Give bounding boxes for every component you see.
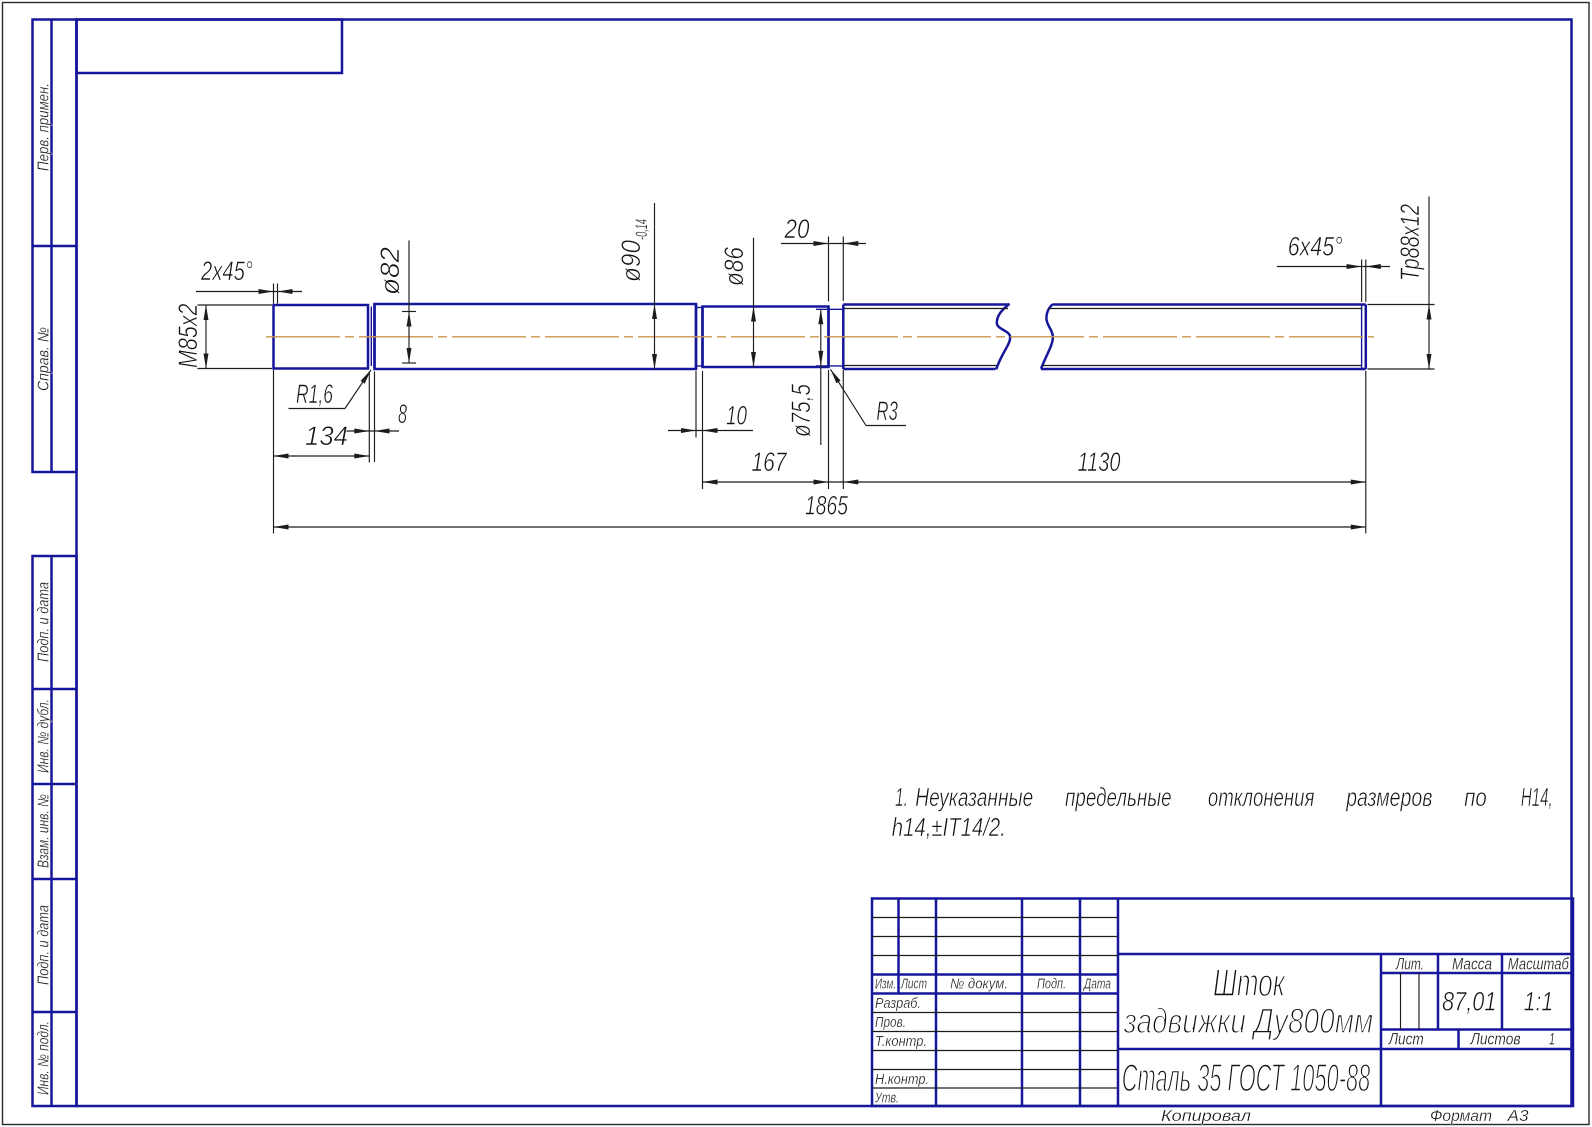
- svg-text:Лит.: Лит.: [1395, 955, 1424, 974]
- svg-text:задвижки Ду800мм: задвижки Ду800мм: [1123, 1002, 1373, 1041]
- svg-text:Лист: Лист: [1388, 1030, 1424, 1049]
- svg-text:2х45°: 2х45°: [200, 256, 253, 286]
- svg-text:Инв. № дубл.: Инв. № дубл.: [36, 699, 53, 773]
- svg-text:1130: 1130: [1078, 447, 1121, 477]
- svg-text:Масса: Масса: [1452, 955, 1492, 974]
- svg-text:Утв.: Утв.: [874, 1091, 899, 1107]
- svg-text:h14,±IT14/2.: h14,±IT14/2.: [892, 812, 1006, 842]
- svg-text:1: 1: [1549, 1030, 1555, 1049]
- svg-text:R3: R3: [876, 396, 898, 426]
- svg-text:ø86: ø86: [719, 246, 749, 286]
- svg-text:№ докум.: № докум.: [950, 977, 1008, 993]
- svg-text:Взам. инв. №: Взам. инв. №: [36, 794, 53, 868]
- svg-text:Т.контр.: Т.контр.: [875, 1034, 927, 1050]
- svg-text:ø90-0,14: ø90-0,14: [616, 219, 651, 282]
- svg-text:167: 167: [752, 447, 788, 477]
- svg-text:134: 134: [305, 421, 348, 451]
- svg-text:Изм.: Изм.: [875, 977, 896, 993]
- svg-text:6х45°: 6х45°: [1288, 232, 1343, 262]
- svg-text:Н14,: Н14,: [1521, 782, 1553, 812]
- svg-text:1865: 1865: [805, 491, 849, 521]
- svg-text:1:1: 1:1: [1524, 987, 1553, 1017]
- svg-text:отклонения: отклонения: [1208, 782, 1315, 812]
- svg-text:Подп. и дата: Подп. и дата: [36, 905, 53, 985]
- svg-text:Справ. №: Справ. №: [36, 327, 53, 391]
- svg-text:Копировал: Копировал: [1161, 1108, 1251, 1125]
- svg-text:Лист: Лист: [900, 977, 927, 993]
- svg-text:предельные: предельные: [1065, 782, 1172, 812]
- svg-text:Формат: Формат: [1430, 1108, 1492, 1125]
- svg-text:размеров: размеров: [1345, 782, 1432, 812]
- svg-text:87,01: 87,01: [1442, 987, 1497, 1017]
- svg-text:Дата: Дата: [1083, 977, 1111, 993]
- svg-text:Сталь 35 ГОСТ 1050-88: Сталь 35 ГОСТ 1050-88: [1122, 1057, 1371, 1100]
- svg-text:Масштаб: Масштаб: [1508, 955, 1570, 974]
- svg-text:M85x2: M85x2: [173, 304, 203, 369]
- svg-text:10: 10: [726, 401, 747, 431]
- svg-text:ø75,5: ø75,5: [786, 383, 816, 437]
- svg-text:по: по: [1464, 782, 1487, 812]
- svg-text:А3: А3: [1506, 1108, 1529, 1125]
- svg-text:20: 20: [784, 214, 810, 244]
- svg-text:Неуказанные: Неуказанные: [915, 782, 1033, 812]
- svg-text:R1,6: R1,6: [296, 379, 334, 409]
- svg-text:Инв. № подл.: Инв. № подл.: [36, 1021, 53, 1095]
- svg-text:Листов: Листов: [1470, 1030, 1521, 1049]
- svg-text:ø82: ø82: [375, 247, 405, 295]
- svg-text:Подп.: Подп.: [1037, 977, 1066, 993]
- svg-text:Н.контр.: Н.контр.: [875, 1072, 929, 1088]
- svg-text:8: 8: [398, 399, 407, 429]
- svg-text:Разраб.: Разраб.: [875, 996, 921, 1012]
- svg-text:Перв. примен.: Перв. примен.: [36, 83, 53, 171]
- svg-text:Тр88х12: Тр88х12: [1395, 204, 1425, 281]
- svg-text:1.: 1.: [895, 782, 908, 812]
- svg-text:Подп. и дата: Подп. и дата: [36, 582, 53, 662]
- svg-text:Шток: Шток: [1213, 962, 1286, 1005]
- svg-text:Пров.: Пров.: [875, 1015, 906, 1031]
